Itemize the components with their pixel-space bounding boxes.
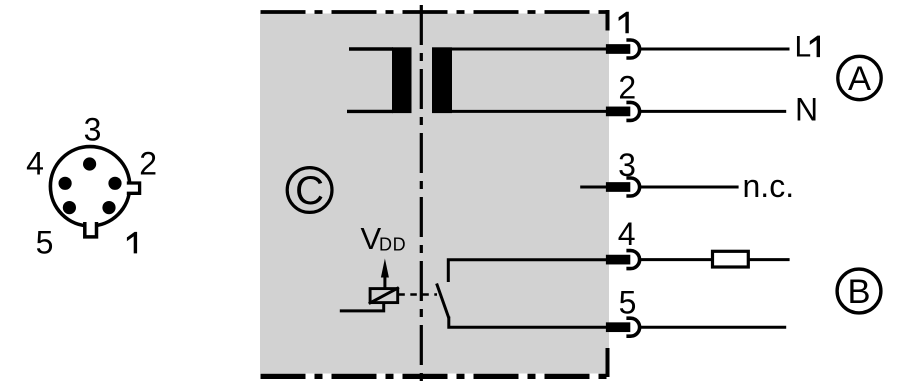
svg-text:2: 2	[618, 69, 636, 105]
svg-text:3: 3	[618, 147, 636, 183]
svg-text:A: A	[848, 60, 871, 98]
svg-text:n.c.: n.c.	[743, 168, 795, 204]
svg-text:5: 5	[619, 284, 637, 320]
svg-text:B: B	[847, 273, 870, 311]
svg-text:L: L	[795, 31, 812, 64]
svg-text:5: 5	[36, 224, 54, 260]
svg-text:N: N	[795, 92, 818, 128]
svg-text:2: 2	[139, 146, 157, 182]
svg-text:4: 4	[618, 216, 636, 252]
svg-text:4: 4	[26, 146, 44, 182]
svg-text:DD: DD	[379, 235, 406, 255]
svg-text:3: 3	[84, 112, 102, 148]
svg-text:C: C	[295, 169, 324, 213]
